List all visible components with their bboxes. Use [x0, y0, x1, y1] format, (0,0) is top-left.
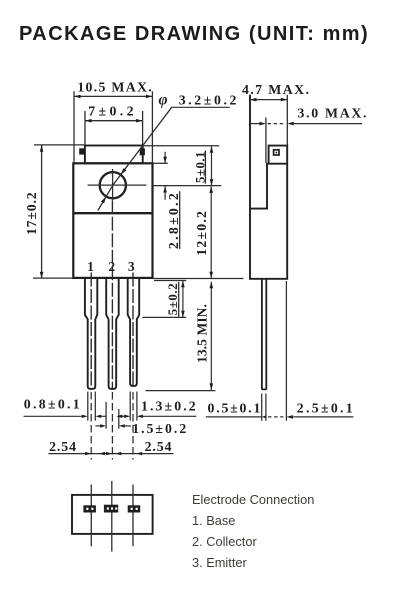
svg-text:7±0.2: 7±0.2	[88, 104, 137, 119]
dimension line row 0.8±0.1 / 1.3±0.2	[24, 415, 197, 417]
svg-text:0.5±0.1: 0.5±0.1	[208, 401, 263, 416]
dimension line 4.7 MAX with extension lines	[250, 95, 287, 145]
arrowheads 17±0.2	[40, 145, 44, 152]
bottom view package outline	[72, 495, 153, 534]
dimension line 1.5±0.2	[96, 425, 131, 427]
title text	[19, 23, 369, 46]
svg-text:2.5±0.1: 2.5±0.1	[297, 401, 355, 416]
side view package outline	[250, 95, 287, 279]
underline of 5±0.2	[178, 282, 180, 317]
underline of φ3.2±0.2	[172, 106, 230, 108]
extension lines lead edges	[88, 392, 137, 429]
arrowheads 0.8±0.1 / 1.3±0.2	[82, 415, 88, 418]
dimension line 5±0.1	[211, 146, 213, 185]
svg-text:13.5 MIN.: 13.5 MIN.	[194, 304, 209, 363]
svg-text:2.8±0.2: 2.8±0.2	[166, 191, 181, 249]
underline of 5±0.1	[204, 151, 206, 184]
dimension line 7±0.2 with extension lines	[85, 111, 143, 145]
dimension line 2.54 pitch	[48, 453, 173, 455]
svg-text:2.54: 2.54	[49, 439, 77, 454]
tab bump right	[140, 148, 145, 155]
svg-text:2.54: 2.54	[145, 439, 173, 454]
svg-text:1.5±0.2: 1.5±0.2	[132, 421, 188, 436]
extension lines for 0.5±0.1 and 2.5±0.1	[262, 281, 287, 421]
leads front view	[85, 278, 139, 389]
dimension arrows 2.8±0.2	[164, 152, 166, 200]
svg-text:5±0.2: 5±0.2	[166, 283, 180, 315]
svg-text:φ 3.2±0.2: φ 3.2±0.2	[159, 92, 240, 109]
pin numbers	[87, 259, 136, 274]
dimension line 3.0 MAX	[250, 118, 362, 164]
svg-text:4.7 MAX.: 4.7 MAX.	[242, 82, 310, 97]
pin center lines (dashed) through leads	[91, 200, 133, 390]
svg-text:1: 1	[87, 259, 96, 274]
front view tab	[85, 146, 143, 164]
svg-text:3.0 MAX.: 3.0 MAX.	[298, 106, 369, 121]
extension lines right of front view	[142, 146, 243, 391]
svg-text:17±0.2: 17±0.2	[24, 192, 39, 235]
dimension line 12±0.2	[210, 186, 212, 278]
svg-text:0.8±0.1: 0.8±0.1	[24, 397, 82, 412]
electrode 3 Emitter	[192, 555, 247, 570]
arrowheads 3.0 MAX	[259, 122, 266, 126]
arrowheads 4.7 MAX	[250, 98, 257, 102]
side hole marker	[274, 150, 279, 155]
hole center line horizontal	[88, 184, 147, 186]
svg-text:2: 2	[108, 259, 117, 274]
electrode 2 Collector	[192, 534, 257, 549]
arrowheads 2.54 pitch	[85, 452, 91, 455]
dimension line 10.5 MAX with extension lines	[74, 91, 152, 163]
pin highlight dots	[86, 507, 137, 510]
arrowheads 1.5±0.2	[100, 424, 106, 427]
bottom view pin center lines	[91, 481, 133, 552]
tab bump left	[79, 148, 85, 154]
side lead	[262, 279, 266, 390]
svg-text:3: 3	[128, 259, 137, 274]
lead 2	[106, 278, 119, 389]
underline of 2.8±0.2	[179, 191, 181, 249]
arrowheads 7±0.2	[85, 119, 92, 123]
lead 3	[128, 278, 140, 386]
leader arrowheads at hole rim	[121, 168, 127, 175]
leader line from φ3.2±0.2 to hole	[98, 107, 172, 210]
electrode connection heading	[192, 492, 314, 507]
electrode 1 Base	[192, 513, 235, 528]
arrowheads 10.5 MAX	[74, 95, 81, 99]
bottom view pins 1,2,3 (filled)	[83, 505, 140, 513]
front view body	[73, 163, 152, 278]
svg-text:10.5 MAX.: 10.5 MAX.	[77, 80, 153, 95]
lead 1	[85, 278, 97, 389]
hole	[100, 172, 126, 198]
svg-text:12±0.2: 12±0.2	[194, 210, 209, 256]
hole crosshair vertical	[112, 169, 114, 200]
svg-text:1.3±0.2: 1.3±0.2	[141, 399, 198, 414]
divider line	[73, 212, 152, 214]
dimension line 0.5±0.1 / 2.5±0.1	[206, 416, 354, 418]
dimension line 13.5 MIN (lead length)	[210, 282, 212, 390]
dimension line 17±0.2 (left) with extension lines	[33, 145, 84, 279]
arrowheads 0.5±0.1 / 2.5±0.1	[262, 415, 267, 418]
dimension line 5±0.2 (lead shoulder)	[182, 281, 184, 318]
